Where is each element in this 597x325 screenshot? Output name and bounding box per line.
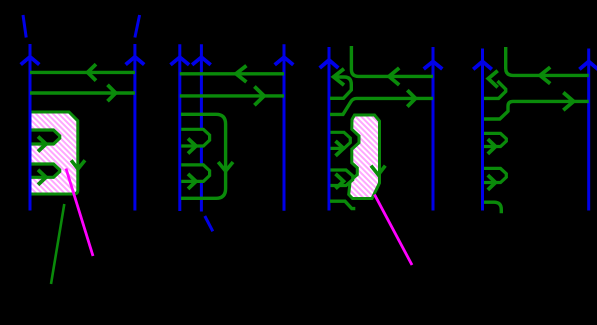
ramp to/from elsewhere with long line to R (P4)	[506, 47, 589, 84]
roadway line L P4	[473, 49, 492, 211]
bottom step ramp stub P3	[330, 201, 355, 208]
wire dash above roadway 1	[23, 15, 26, 38]
U-ramp loop B P4	[484, 168, 506, 190]
U-ramp loop 2 P1	[32, 164, 60, 185]
wire dash below roadway B	[205, 216, 213, 231]
roadway line 1 (left carriageway P1)	[21, 44, 40, 211]
U-ramp loop 2 P2	[181, 165, 209, 189]
U-ramp loop 1 P2	[181, 129, 209, 153]
ramp to/from elsewhere with long line to R (P3)	[351, 46, 433, 85]
crossover ramp lower (rightward) P2	[180, 87, 284, 106]
roadway line C P2	[275, 44, 294, 211]
L to R ramp (P3)	[330, 90, 433, 114]
bottom hook stub P4	[484, 202, 501, 213]
crossover ramp upper (leftward) P1	[30, 64, 135, 80]
highlight blob P1 (weaving area)	[31, 112, 78, 194]
roadway line 2 (right carriageway P1)	[126, 44, 145, 211]
magenta callout line P1	[66, 169, 93, 257]
highlight blob P3	[349, 115, 380, 199]
wire dash above roadway 2	[135, 15, 140, 38]
roadway line B P2	[192, 44, 211, 211]
down arrow on blob border P3	[371, 166, 385, 175]
roadway line R P3	[424, 47, 443, 211]
down arrow on blob border P1	[71, 160, 85, 169]
merge arrow path into L (P3)	[330, 69, 351, 99]
U-ramp loop 1 P3	[331, 132, 351, 156]
crossover ramp lower (rightward) P1	[30, 85, 135, 101]
U-ramp loop 2 P3	[331, 170, 353, 189]
U-ramp loop 1 P1	[32, 130, 60, 152]
roadway line A P2	[171, 44, 190, 211]
roadway line R P4	[579, 49, 597, 211]
magenta callout line P3	[375, 195, 413, 266]
crossover ramp upper (leftward) P2	[180, 66, 284, 82]
merge arrow path into L (P4)	[484, 71, 506, 99]
green callout line P1	[51, 204, 64, 284]
roadway line L P3	[320, 47, 339, 211]
braided collector road P2	[181, 114, 233, 198]
U-ramp loop A P4	[484, 133, 506, 154]
L to R ramp (P4)	[484, 93, 589, 120]
